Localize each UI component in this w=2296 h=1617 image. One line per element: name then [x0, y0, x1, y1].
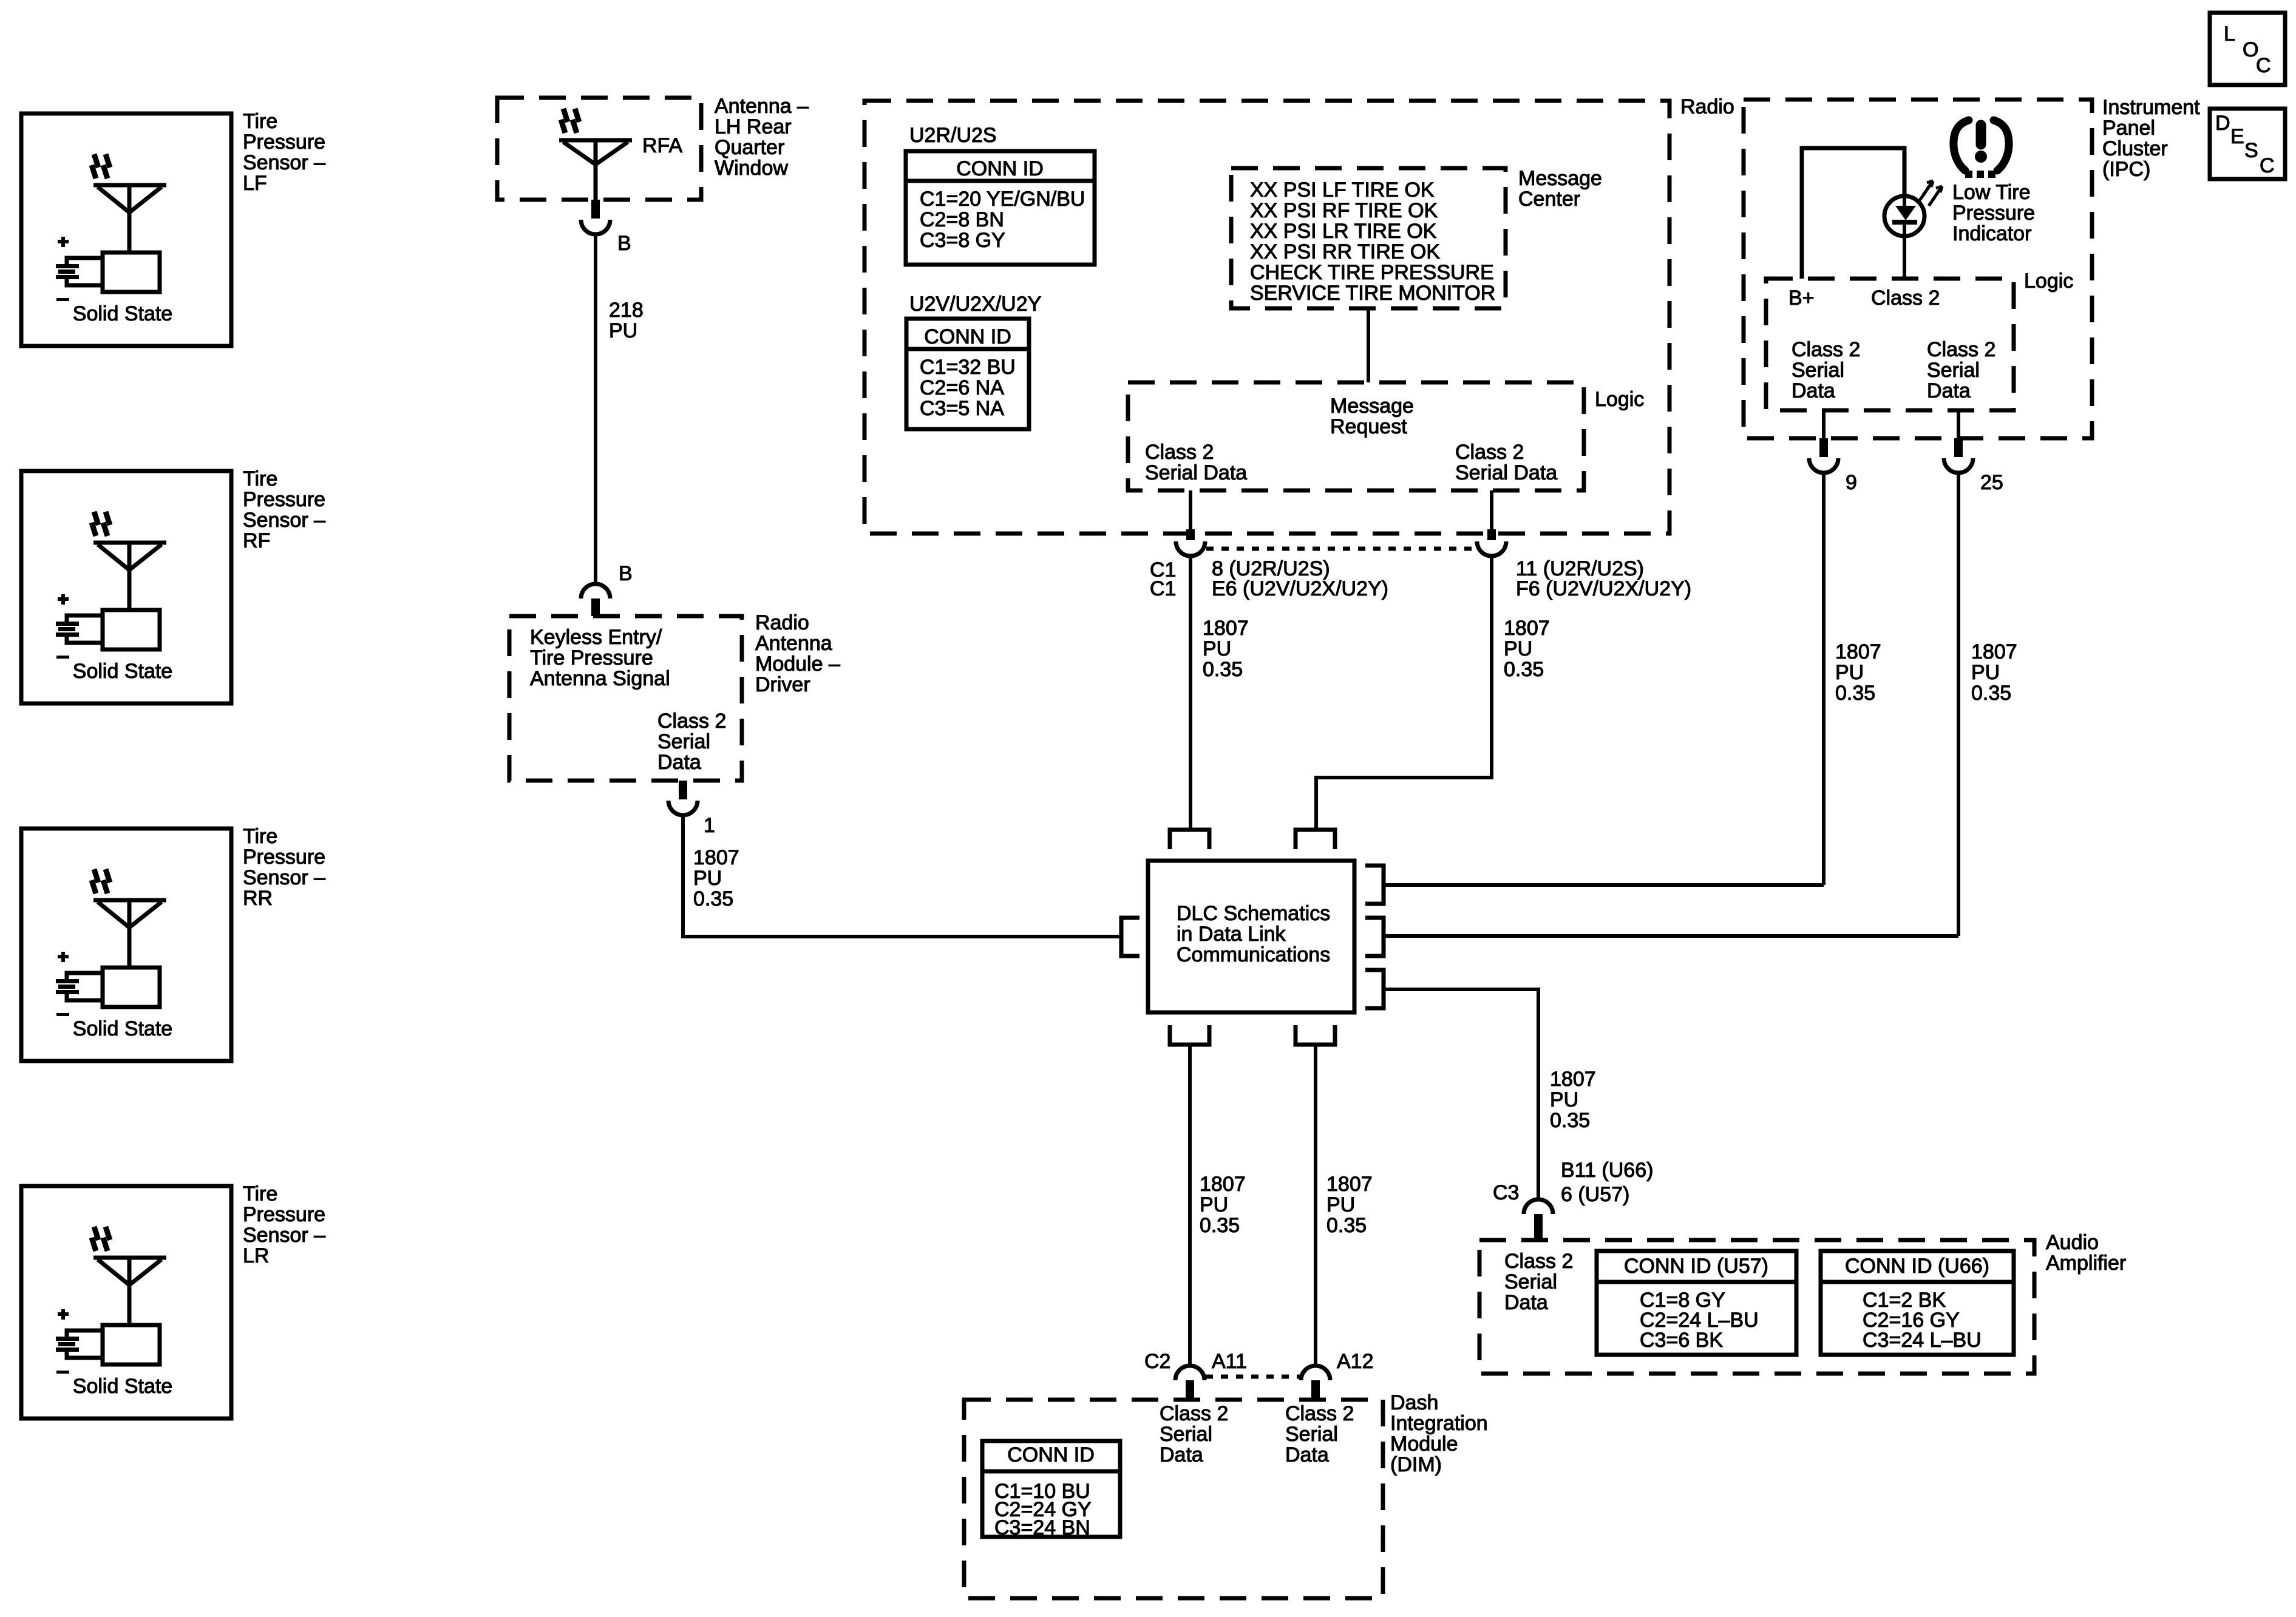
radio logic box: [1128, 382, 1584, 490]
svg-text:Class 2: Class 2: [1927, 338, 1995, 361]
label Logic (IPC): [2024, 269, 2073, 293]
node: Class 2 Serial Data (radio antenna module): [657, 710, 726, 774]
label U2V/U2X/U2Y: [909, 293, 1041, 316]
label: Tire Pressure Sensor - LF: [243, 110, 325, 195]
svg-text:A11: A11: [1212, 1350, 1247, 1373]
svg-text:L: L: [2224, 22, 2235, 46]
svg-text:Data: Data: [1792, 379, 1835, 402]
svg-text:LF: LF: [243, 172, 267, 195]
svg-text:6 (U57): 6 (U57): [1561, 1183, 1629, 1206]
DLC bottom tab left: [1170, 1025, 1209, 1045]
svg-text:A12: A12: [1337, 1350, 1374, 1373]
svg-text:Serial Data: Serial Data: [1455, 461, 1557, 484]
label: Radio Antenna Module - Driver: [755, 611, 840, 696]
svg-text:C: C: [2256, 54, 2271, 77]
svg-text:Solid State: Solid State: [73, 302, 172, 325]
svg-text:0.35: 0.35: [1326, 1214, 1367, 1237]
pin labels B11 (U66) / 6 (U57): [1561, 1159, 1653, 1206]
dash integration module box (DIM): [964, 1400, 1383, 1598]
antenna symbol RFA: [559, 109, 632, 200]
svg-text:Keyless Entry/: Keyless Entry/: [530, 626, 662, 649]
DESC reference box: [2210, 109, 2285, 179]
svg-text:Class 2: Class 2: [1871, 286, 1940, 310]
message center box: [1231, 168, 1506, 308]
svg-text:PU: PU: [1200, 1193, 1228, 1216]
wire label 1807 PU 0.35 (IPC 9): [1835, 640, 1881, 705]
DLC left bracket: [1121, 918, 1140, 956]
svg-text:PU: PU: [1326, 1193, 1355, 1216]
antenna symbol (RR sensor): [92, 869, 166, 968]
svg-text:Audio: Audio: [2046, 1231, 2099, 1254]
svg-text:Class 2: Class 2: [1504, 1250, 1573, 1273]
label: Low Tire Pressure Indicator: [1952, 181, 2035, 245]
connector interface dotted line (radio C1): [1206, 547, 1476, 551]
DLC junction box: DLC Schematics in Data Link Communications: [1148, 861, 1354, 1012]
svg-text:XX PSI RR TIRE OK: XX PSI RR TIRE OK: [1250, 240, 1440, 263]
node: Class 2 Serial Data (IPC right): [1927, 338, 1995, 402]
svg-text:XX PSI LF TIRE OK: XX PSI LF TIRE OK: [1250, 178, 1435, 202]
connector A12 (DIM): [1301, 1366, 1330, 1400]
node Class 2 (IPC top): [1871, 286, 1940, 310]
svg-text:C: C: [2260, 154, 2275, 177]
svg-text:0.35: 0.35: [1200, 1214, 1240, 1237]
svg-text:PU: PU: [1971, 661, 2000, 684]
battery symbol (RR sensor): [56, 952, 103, 1016]
wire B+ branch (IPC): [1802, 148, 1904, 279]
svg-text:1807: 1807: [1326, 1173, 1373, 1196]
wire label 1807 PU 0.35 (DIM left): [1200, 1173, 1246, 1237]
wire 1807 PU 0.35 (IPC 9 to DLC): [1822, 473, 1826, 885]
node: Class 2 Serial Data (audio): [1504, 1250, 1573, 1314]
wire label 1807 PU 0.35 (DIM right): [1326, 1173, 1373, 1237]
svg-text:CONN ID (U66): CONN ID (U66): [1845, 1255, 1989, 1278]
svg-text:Pressure: Pressure: [243, 1203, 325, 1226]
svg-text:Pressure: Pressure: [243, 846, 325, 869]
pin labels 11 / F6: [1516, 557, 1691, 600]
DLC top tab right: [1296, 830, 1335, 849]
label: Message Center: [1518, 167, 1602, 211]
svg-text:Antenna: Antenna: [755, 632, 832, 655]
svg-text:Tire: Tire: [243, 825, 277, 848]
svg-text:Data: Data: [1160, 1443, 1203, 1466]
svg-text:0.35: 0.35: [693, 887, 733, 910]
svg-text:RFA: RFA: [642, 134, 682, 157]
svg-text:Tire Pressure: Tire Pressure: [530, 646, 653, 670]
connector C3 (audio amplifier): [1493, 1181, 1553, 1240]
svg-text:(IPC): (IPC): [2102, 158, 2150, 181]
svg-text:XX PSI LR TIRE OK: XX PSI LR TIRE OK: [1250, 220, 1437, 243]
svg-text:Radio: Radio: [755, 611, 809, 634]
svg-text:PU: PU: [1504, 637, 1532, 660]
svg-text:Data: Data: [1504, 1291, 1548, 1314]
svg-text:Serial: Serial: [1927, 359, 1980, 382]
svg-text:Serial: Serial: [1504, 1270, 1557, 1293]
svg-text:Class 2: Class 2: [657, 710, 726, 733]
DLC top tab left: [1170, 830, 1209, 849]
LED light arrows: [1920, 181, 1942, 206]
svg-text:0.35: 0.35: [1971, 682, 2011, 705]
battery symbol (RF sensor): [56, 594, 103, 659]
node: Class 2 Serial Data (DIM left): [1160, 1402, 1228, 1466]
battery symbol (LR sensor): [56, 1309, 103, 1374]
svg-text:CONN ID: CONN ID: [1007, 1443, 1095, 1466]
label: Tire Pressure Sensor - LR: [243, 1182, 325, 1267]
svg-text:E6 (U2V/U2X/U2Y): E6 (U2V/U2X/U2Y): [1212, 577, 1388, 600]
svg-text:SERVICE TIRE MONITOR: SERVICE TIRE MONITOR: [1250, 282, 1495, 305]
svg-text:LH Rear: LH Rear: [715, 115, 792, 138]
svg-text:1807: 1807: [1203, 617, 1249, 640]
LED indicator (IPC): [1884, 196, 1924, 236]
wire 1807 PU 0.35 (keyless to DLC): [683, 815, 1121, 937]
svg-text:Center: Center: [1518, 188, 1580, 211]
svg-text:Amplifier: Amplifier: [2046, 1252, 2126, 1275]
svg-text:Module –: Module –: [755, 653, 840, 676]
svg-text:Antenna Signal: Antenna Signal: [530, 667, 670, 690]
svg-text:Tire: Tire: [243, 467, 277, 490]
node: Class 2 Serial Data (radio right): [1455, 441, 1557, 484]
svg-text:Class 2: Class 2: [1792, 338, 1860, 361]
connector interface dotted line (DIM): [1206, 1375, 1300, 1379]
svg-text:1807: 1807: [1550, 1068, 1596, 1091]
svg-text:Module: Module: [1390, 1432, 1458, 1456]
svg-text:F6 (U2V/U2X/U2Y): F6 (U2V/U2X/U2Y): [1516, 577, 1691, 600]
label U2R/U2S: [909, 124, 997, 147]
label: Audio Amplifier: [2046, 1231, 2126, 1275]
label: Tire Pressure Sensor - RR: [243, 825, 325, 910]
wire radio logic to connector C1 pin 11: [1490, 490, 1493, 529]
svg-text:Tire: Tire: [243, 1182, 277, 1205]
wire label 1807 PU 0.35 (audio): [1550, 1068, 1596, 1132]
wire 1807 PU 0.35 (radio pin 8 to DLC): [1189, 557, 1192, 830]
svg-text:Solid State: Solid State: [73, 660, 172, 683]
node B+: [1788, 286, 1815, 310]
labels C2 A11 A12: [1144, 1350, 1374, 1373]
svg-text:Serial: Serial: [1285, 1423, 1338, 1446]
svg-text:Data: Data: [1285, 1443, 1329, 1466]
antenna RFA module box (Antenna - LH Rear Quarter Window): [497, 98, 701, 200]
svg-text:1807: 1807: [1835, 640, 1881, 663]
svg-text:25: 25: [1980, 471, 2003, 494]
svg-text:C3: C3: [1493, 1181, 1519, 1204]
pin labels 8 / E6: [1212, 557, 1388, 600]
svg-text:Class 2: Class 2: [1285, 1402, 1354, 1425]
wire LED to IPC logic: [1903, 236, 1906, 279]
wire DLC to IPC pin 25: [1384, 934, 1958, 938]
svg-text:Quarter: Quarter: [715, 136, 784, 159]
svg-text:CONN ID: CONN ID: [956, 157, 1044, 180]
svg-text:Tire: Tire: [243, 110, 277, 133]
svg-text:Pressure: Pressure: [243, 131, 325, 154]
IPC logic box: [1766, 279, 2014, 410]
svg-text:E: E: [2230, 125, 2244, 148]
label RFA: [642, 134, 682, 157]
wire IPC logic to pin 25: [1957, 410, 1960, 438]
battery symbol (LF sensor): [56, 237, 103, 301]
svg-text:Sensor –: Sensor –: [243, 1224, 325, 1247]
svg-text:Sensor –: Sensor –: [243, 509, 325, 532]
svg-text:CONN ID (U57): CONN ID (U57): [1624, 1255, 1768, 1278]
wire label 218 PU: [609, 299, 644, 342]
svg-text:C2: C2: [1144, 1350, 1170, 1373]
label: Antenna - LH Rear Quarter Window: [715, 95, 809, 180]
svg-text:LR: LR: [243, 1244, 269, 1267]
svg-text:(DIM): (DIM): [1390, 1453, 1442, 1476]
svg-text:C3=8 GY: C3=8 GY: [920, 229, 1005, 252]
antenna symbol (LF sensor): [92, 154, 166, 253]
svg-text:PU: PU: [1835, 661, 1864, 684]
wire 218 PU (antenna to keyless entry): [594, 234, 597, 583]
label: Keyless Entry / Tire Pressure Antenna Signal: [530, 626, 670, 690]
label: Dash Integration Module (DIM): [1390, 1391, 1488, 1476]
solid state box (RF sensor): [73, 610, 172, 683]
svg-text:C3=24 L–BU: C3=24 L–BU: [1863, 1329, 1982, 1352]
wire radio logic to connector C1 pin 8: [1189, 490, 1192, 529]
svg-text:1807: 1807: [693, 846, 739, 869]
svg-text:Serial: Serial: [657, 730, 710, 753]
connector B (radio antenna module input): [581, 562, 633, 616]
antenna symbol (LR sensor): [92, 1227, 166, 1325]
svg-text:Sensor –: Sensor –: [243, 866, 325, 889]
antenna symbol (RF sensor): [92, 512, 166, 610]
svg-text:D: D: [2215, 112, 2230, 135]
svg-text:B11 (U66): B11 (U66): [1561, 1159, 1653, 1182]
svg-text:Radio: Radio: [1680, 95, 1734, 118]
node: Class 2 Serial Data (DIM right): [1285, 1402, 1354, 1466]
svg-text:U2V/U2X/U2Y: U2V/U2X/U2Y: [909, 293, 1041, 316]
solid state box (LR sensor): [73, 1325, 172, 1398]
svg-text:C2=6 NA: C2=6 NA: [920, 376, 1004, 399]
svg-text:PU: PU: [1550, 1088, 1578, 1111]
svg-text:PU: PU: [1203, 637, 1231, 660]
CONN ID table (U57): [1597, 1251, 1796, 1355]
tire pressure sensor LF box: [21, 114, 231, 346]
svg-text:S: S: [2244, 139, 2258, 162]
DLC right bracket 3: [1365, 970, 1384, 1008]
labels C1 C1: [1150, 558, 1176, 600]
svg-text:C3=24 BN: C3=24 BN: [994, 1516, 1090, 1539]
CONN ID table (U2V/U2X/U2Y): [906, 319, 1029, 429]
label Radio: [1680, 95, 1734, 118]
connector C1 pin 11 (radio): [1477, 529, 1506, 556]
connector C1 pin 8 (radio): [1176, 529, 1205, 556]
svg-text:Driver: Driver: [755, 673, 810, 696]
connector pin 9 (IPC): [1809, 438, 1857, 494]
svg-text:B: B: [617, 232, 631, 255]
svg-text:in Data Link: in Data Link: [1177, 923, 1286, 946]
svg-text:Class 2: Class 2: [1455, 441, 1524, 464]
svg-text:B+: B+: [1788, 286, 1815, 310]
CONN ID table (U66): [1821, 1251, 2014, 1355]
wire message center to logic: [1367, 308, 1370, 382]
CONN ID table (U2R/U2S): [906, 151, 1095, 265]
svg-text:Message: Message: [1518, 167, 1602, 190]
svg-text:0.35: 0.35: [1835, 682, 1875, 705]
wire DLC to IPC pin 9: [1384, 883, 1824, 887]
svg-text:CONN ID: CONN ID: [924, 325, 1011, 348]
wire DLC bottom left to DIM C2: [1188, 1045, 1192, 1364]
svg-text:Antenna –: Antenna –: [715, 95, 809, 118]
svg-text:PU: PU: [693, 867, 722, 890]
svg-text:1807: 1807: [1200, 1173, 1246, 1196]
label Logic (radio): [1595, 388, 1644, 411]
node: Message Request: [1330, 395, 1414, 438]
tire pressure sensor LR box: [21, 1186, 231, 1419]
connector B (antenna output): [581, 200, 631, 255]
node: Class 2 Serial Data (IPC left): [1792, 338, 1860, 402]
svg-text:Dash: Dash: [1390, 1391, 1438, 1414]
svg-text:PU: PU: [609, 319, 637, 342]
keyless entry / radio antenna module box: [509, 616, 742, 781]
svg-text:Window: Window: [715, 157, 788, 180]
svg-text:Solid State: Solid State: [73, 1017, 172, 1040]
label: Tire Pressure Sensor - RF: [243, 467, 325, 552]
svg-text:Panel: Panel: [2102, 117, 2155, 140]
node: Class 2 Serial Data (radio left): [1145, 441, 1247, 484]
svg-text:C1=20 YE/GN/BU: C1=20 YE/GN/BU: [920, 188, 1085, 211]
svg-text:RF: RF: [243, 529, 270, 552]
svg-text:C2=8 BN: C2=8 BN: [920, 208, 1004, 231]
svg-text:1: 1: [704, 814, 715, 837]
svg-text:B: B: [619, 562, 633, 585]
svg-text:U2R/U2S: U2R/U2S: [909, 124, 997, 147]
svg-text:Class 2: Class 2: [1160, 1402, 1228, 1425]
svg-text:Sensor –: Sensor –: [243, 151, 325, 174]
CONN ID table (DIM): [982, 1441, 1120, 1539]
radio box: [864, 101, 1669, 534]
tire pressure sensor RF box: [21, 471, 231, 703]
svg-text:Communications: Communications: [1177, 943, 1330, 966]
svg-text:Integration: Integration: [1390, 1412, 1488, 1435]
DLC right bracket 1: [1365, 866, 1384, 904]
svg-text:XX PSI RF TIRE OK: XX PSI RF TIRE OK: [1250, 199, 1438, 222]
svg-text:1807: 1807: [1971, 640, 2017, 663]
svg-text:Cluster: Cluster: [2102, 137, 2168, 160]
svg-text:Logic: Logic: [2024, 269, 2073, 293]
svg-text:0.35: 0.35: [1203, 658, 1243, 681]
svg-text:9: 9: [1846, 471, 1857, 494]
DLC right bracket 2: [1365, 918, 1384, 956]
audio amplifier box: [1479, 1240, 2034, 1374]
svg-text:1807: 1807: [1504, 617, 1550, 640]
wire IPC logic to pin 9: [1822, 410, 1826, 438]
svg-text:C1=32 BU: C1=32 BU: [920, 356, 1016, 379]
wire DLC bottom right to DIM A12: [1314, 1045, 1317, 1364]
svg-text:Solid State: Solid State: [73, 1375, 172, 1398]
svg-text:DLC Schematics: DLC Schematics: [1177, 902, 1330, 925]
wire label 1807 PU 0.35 (IPC 25): [1971, 640, 2017, 705]
connector C2/A11 (DIM): [1175, 1366, 1204, 1400]
solid state box (LF sensor): [73, 253, 172, 325]
tire pressure sensor RR box: [21, 829, 231, 1061]
svg-text:Data: Data: [1927, 379, 1971, 402]
DLC bottom tab right: [1296, 1025, 1335, 1045]
connector pin 1 (radio antenna module): [668, 781, 715, 837]
svg-text:Serial: Serial: [1792, 359, 1844, 382]
svg-text:Message: Message: [1330, 395, 1414, 418]
svg-text:Class 2: Class 2: [1145, 441, 1214, 464]
solid state box (RR sensor): [73, 968, 172, 1040]
wire 1807 PU 0.35 (radio pin 11 to DLC): [1316, 557, 1492, 830]
svg-text:218: 218: [609, 299, 644, 322]
svg-text:Pressure: Pressure: [243, 488, 325, 511]
instrument panel cluster box (IPC): [1744, 100, 2092, 438]
wire 1807 PU 0.35 (IPC 25 to DLC): [1957, 473, 1960, 936]
low tire pressure warning icon (TPMS): [1954, 120, 2009, 174]
svg-text:Data: Data: [657, 751, 701, 774]
svg-text:0.35: 0.35: [1504, 658, 1544, 681]
svg-text:Logic: Logic: [1595, 388, 1644, 411]
connector pin 25 (IPC): [1944, 438, 2003, 494]
wire DLC to audio amplifier C3: [1384, 989, 1538, 1198]
svg-text:C3=5 NA: C3=5 NA: [920, 397, 1004, 420]
svg-text:C1: C1: [1150, 577, 1176, 600]
svg-text:Instrument: Instrument: [2102, 96, 2200, 119]
wire label 1807 PU 0.35 (radio left): [1203, 617, 1249, 681]
svg-text:CHECK TIRE PRESSURE: CHECK TIRE PRESSURE: [1250, 261, 1494, 284]
LOC reference box: [2210, 13, 2285, 85]
svg-text:RR: RR: [243, 887, 273, 910]
svg-text:Indicator: Indicator: [1952, 222, 2031, 245]
svg-text:Request: Request: [1330, 415, 1407, 438]
label: Instrument Panel Cluster (IPC): [2102, 96, 2200, 181]
svg-text:Low Tire: Low Tire: [1952, 181, 2031, 204]
wire label 1807 PU 0.35 (radio right): [1504, 617, 1550, 681]
svg-text:0.35: 0.35: [1550, 1109, 1590, 1132]
svg-text:Serial: Serial: [1160, 1423, 1212, 1446]
wire label 1807 PU 0.35 (keyless): [693, 846, 739, 910]
svg-text:Pressure: Pressure: [1952, 202, 2035, 225]
svg-text:C3=6 BK: C3=6 BK: [1640, 1329, 1723, 1352]
svg-text:Serial Data: Serial Data: [1145, 461, 1247, 484]
